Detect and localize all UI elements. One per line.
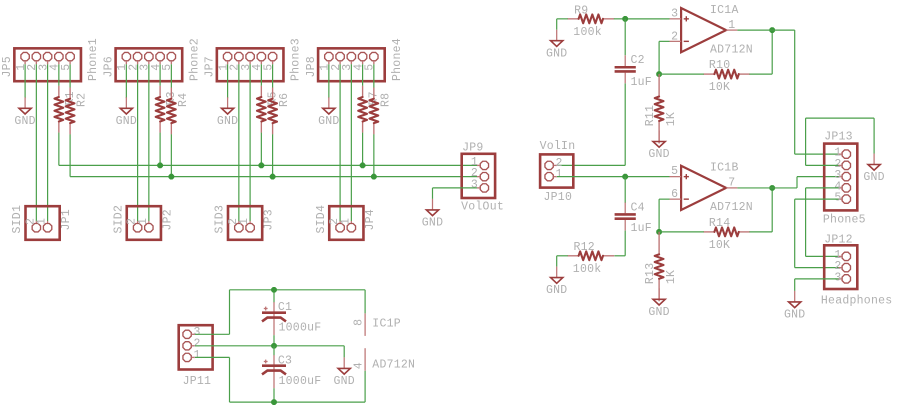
wire [24, 64, 26, 98]
svg-text:GND: GND [784, 309, 805, 322]
wire [557, 176, 670, 178]
svg-text:JP9: JP9 [462, 141, 483, 154]
wire [794, 279, 796, 291]
wire [59, 164, 477, 166]
junction dot [258, 163, 264, 169]
wire [238, 64, 240, 221]
svg-text:3: 3 [671, 7, 678, 20]
svg-text:Phone1: Phone1 [87, 38, 100, 81]
op-amp IC1B [670, 166, 738, 210]
wire [373, 64, 375, 87]
wire [624, 177, 626, 203]
ground GND at JP13 [863, 154, 884, 185]
svg-text:5: 5 [364, 64, 377, 71]
wire [749, 231, 772, 233]
connector JP6 (Phone2) [103, 38, 202, 81]
wire [170, 64, 172, 87]
wire [805, 118, 807, 165]
junction dot [360, 163, 366, 169]
wire [364, 371, 366, 402]
junction dot [769, 185, 775, 191]
wire [273, 346, 275, 356]
wire [625, 18, 669, 20]
wire [343, 346, 345, 358]
svg-text:Phone3: Phone3 [290, 38, 303, 81]
svg-text:VolIn: VolIn [540, 140, 576, 153]
wire [148, 64, 150, 221]
junction dot [168, 174, 174, 180]
svg-text:1: 1 [339, 218, 352, 225]
connector JP8 (Phone4) [305, 38, 404, 81]
wire [35, 64, 37, 221]
wire [272, 64, 274, 87]
svg-text:JP3: JP3 [263, 209, 276, 230]
wire [70, 176, 477, 178]
svg-text:AD712N: AD712N [710, 43, 753, 56]
ground GND under JP8 [318, 97, 339, 128]
wire [737, 29, 794, 31]
wire [658, 41, 660, 74]
wire [806, 164, 839, 166]
connector JP5 (Phone1) [1, 38, 100, 81]
junction dot [371, 174, 377, 180]
svg-text:GND: GND [333, 375, 354, 388]
svg-text:C2: C2 [631, 54, 645, 67]
svg-text:1000uF: 1000uF [279, 375, 322, 388]
wire [795, 198, 839, 200]
svg-text:C3: C3 [278, 354, 292, 367]
svg-text:GND: GND [546, 47, 567, 60]
svg-text:10K: 10K [709, 239, 730, 252]
svg-text:VolOut: VolOut [461, 200, 504, 213]
wire [796, 177, 798, 188]
wire [273, 335, 275, 346]
svg-text:GND: GND [422, 217, 443, 230]
wire [805, 188, 807, 257]
junction dot [271, 343, 277, 349]
svg-text:SID1: SID1 [11, 205, 24, 234]
svg-text:4: 4 [353, 362, 366, 369]
wire [795, 278, 839, 280]
svg-text:GND: GND [217, 115, 238, 128]
wire [195, 356, 230, 358]
junction dot [270, 174, 276, 180]
svg-text:100k: 100k [573, 26, 602, 39]
svg-text:JP13: JP13 [824, 131, 853, 144]
svg-text:1K: 1K [665, 270, 678, 284]
wire [771, 30, 773, 74]
wire [362, 133, 364, 166]
svg-text:JP8: JP8 [305, 56, 318, 77]
svg-text:GND: GND [648, 148, 669, 161]
svg-text:1K: 1K [665, 112, 678, 126]
wire [260, 64, 262, 86]
wire [624, 231, 626, 256]
connector JP13 (Phone5) [823, 131, 866, 227]
wire [328, 64, 330, 98]
wire [806, 187, 839, 189]
ground GND under JP6 [116, 97, 137, 128]
svg-text:Phone2: Phone2 [188, 38, 201, 81]
svg-text:R6: R6 [278, 93, 291, 107]
wire [795, 267, 839, 269]
svg-text:SID4: SID4 [315, 205, 328, 234]
wire [614, 255, 625, 257]
wire [170, 134, 172, 176]
svg-text:JP2: JP2 [161, 209, 174, 230]
ground GND under JP7 [217, 97, 238, 128]
wire [159, 64, 161, 86]
wire [47, 64, 49, 221]
wire [794, 30, 796, 154]
wire [659, 40, 669, 42]
svg-text:JP4: JP4 [364, 209, 377, 230]
wire [658, 199, 660, 232]
svg-text:SID2: SID2 [113, 205, 126, 234]
svg-text:R8: R8 [379, 93, 392, 107]
svg-text:JP5: JP5 [1, 56, 14, 77]
junction dot [656, 71, 662, 77]
wire [432, 188, 434, 199]
junction dot [622, 174, 628, 180]
svg-text:R4: R4 [177, 93, 190, 107]
wire [624, 83, 626, 165]
svg-text:5: 5 [834, 192, 841, 205]
wire [195, 345, 344, 347]
wire [614, 18, 625, 20]
svg-text:1uF: 1uF [631, 222, 652, 235]
junction dot [769, 27, 775, 33]
wire [659, 231, 704, 233]
wire [273, 388, 275, 402]
wire [556, 256, 558, 267]
connector JP10 (VolIn) [540, 140, 576, 204]
wire [795, 153, 839, 155]
ground GND under JP5 [14, 97, 35, 128]
svg-text:2: 2 [671, 30, 678, 43]
wire [229, 290, 231, 335]
wire [806, 117, 875, 119]
junction dot [271, 399, 277, 405]
svg-text:8: 8 [353, 319, 366, 326]
svg-text:3: 3 [834, 271, 841, 284]
svg-text:5: 5 [161, 64, 174, 71]
wire [125, 64, 127, 98]
svg-text:C1: C1 [278, 301, 292, 314]
junction dot [656, 229, 662, 235]
wire [230, 401, 366, 403]
wire [137, 64, 139, 221]
wire [195, 333, 230, 335]
svg-text:IC1B: IC1B [710, 162, 739, 175]
wire [806, 255, 839, 257]
op-amp IC1A [670, 8, 738, 52]
svg-text:R2: R2 [76, 93, 89, 107]
svg-text:AD712N: AD712N [710, 201, 753, 214]
wire [873, 118, 875, 153]
svg-text:GND: GND [318, 115, 339, 128]
svg-text:JP11: JP11 [183, 375, 212, 388]
junction dot [622, 16, 628, 22]
wire [794, 199, 796, 268]
wire [58, 64, 60, 86]
svg-text:JP1: JP1 [60, 209, 73, 230]
wire [229, 357, 231, 402]
svg-text:1000uF: 1000uF [279, 322, 322, 335]
svg-text:JP6: JP6 [103, 56, 116, 77]
wire [433, 187, 478, 189]
svg-text:Phone4: Phone4 [391, 38, 404, 81]
svg-text:JP7: JP7 [204, 56, 217, 77]
connector JP3 (SID3) [214, 205, 276, 240]
wire [339, 64, 341, 221]
svg-text:5: 5 [671, 165, 678, 178]
wire [227, 64, 229, 98]
pin 4 (V-) [364, 348, 366, 371]
wire [659, 73, 704, 75]
svg-text:GND: GND [14, 115, 35, 128]
svg-text:IC1A: IC1A [710, 4, 739, 17]
wire [557, 255, 568, 257]
wire [69, 64, 71, 87]
wire [771, 188, 773, 232]
svg-text:SID3: SID3 [214, 205, 227, 234]
svg-text:1: 1 [238, 218, 251, 225]
ground GND under R11 [648, 131, 669, 162]
svg-text:GND: GND [648, 306, 669, 319]
ground GND under R13 [648, 288, 669, 319]
connector JP11 [179, 325, 213, 388]
wire [557, 18, 568, 20]
wire [273, 290, 275, 303]
svg-text:JP10: JP10 [544, 191, 573, 204]
wire [659, 198, 669, 200]
svg-text:Phone5: Phone5 [823, 213, 866, 226]
junction dot [271, 287, 277, 293]
wire [350, 64, 352, 221]
wire [58, 133, 60, 166]
svg-text:IC1P: IC1P [372, 318, 401, 331]
connector JP4 (SID4) [315, 205, 377, 240]
wire [556, 19, 558, 30]
svg-text:5: 5 [60, 64, 73, 71]
svg-text:10K: 10K [709, 81, 730, 94]
wire [624, 19, 626, 55]
wire [260, 133, 262, 166]
ground GND at R9 [546, 30, 567, 61]
ground GND at R12 [546, 267, 567, 298]
svg-text:6: 6 [671, 188, 678, 201]
svg-text:GND: GND [863, 171, 884, 184]
svg-text:1uF: 1uF [631, 76, 652, 89]
connector JP1 (SID1) [11, 205, 73, 240]
svg-text:Headphones: Headphones [821, 295, 893, 308]
svg-text:7: 7 [728, 177, 735, 190]
ground GND at JP9 [422, 199, 443, 230]
wire [557, 164, 625, 166]
wire [749, 73, 772, 75]
connector JP12 (Headphones) [821, 234, 893, 308]
wire [373, 134, 375, 176]
svg-text:GND: GND [116, 115, 137, 128]
svg-text:1: 1 [36, 218, 49, 225]
connector JP9 (VolOut) [461, 141, 504, 213]
wire [364, 290, 366, 314]
connector JP7 (Phone3) [204, 38, 303, 81]
svg-text:AD712N: AD712N [372, 359, 415, 372]
wire [249, 64, 251, 221]
wire [230, 289, 366, 291]
svg-text:1: 1 [137, 218, 150, 225]
svg-text:3: 3 [471, 179, 478, 192]
ground GND at JP12 [784, 291, 805, 322]
wire [362, 64, 364, 86]
svg-text:1: 1 [556, 168, 563, 181]
wire [272, 134, 274, 176]
svg-text:1: 1 [194, 349, 201, 362]
wire [159, 133, 161, 166]
svg-text:100k: 100k [573, 263, 602, 276]
wire [69, 134, 71, 176]
pin 8 (V+) [364, 313, 366, 336]
svg-text:C4: C4 [631, 201, 645, 214]
junction dot [157, 163, 163, 169]
connector JP2 (SID2) [113, 205, 175, 240]
wire [797, 176, 839, 178]
wire [737, 187, 797, 189]
svg-text:5: 5 [262, 64, 275, 71]
svg-text:GND: GND [546, 284, 567, 297]
ground GND at JP11 rail [333, 357, 354, 388]
svg-text:1: 1 [728, 19, 735, 32]
